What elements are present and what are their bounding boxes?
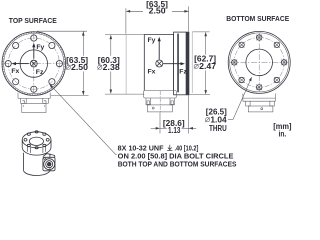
svg-text:Fz: Fz [179,69,187,76]
svg-text:ON 2.00 [50.8] DIA BOLT CIRCLE: ON 2.00 [50.8] DIA BOLT CIRCLE [118,154,234,161]
svg-text:2.38: 2.38 [103,63,121,72]
svg-text:1.04: 1.04 [210,116,227,125]
svg-text:in.: in. [279,129,287,138]
svg-text:8X 10-32 UNF: 8X 10-32 UNF [118,145,165,152]
svg-text:TOP SURFACE: TOP SURFACE [9,16,57,25]
svg-text:Fy: Fy [148,37,156,44]
svg-text:2.50: 2.50 [149,7,167,16]
svg-text:.40 [10.2]: .40 [10.2] [175,145,199,152]
svg-text:BOTH TOP AND BOTTOM SURFACES: BOTH TOP AND BOTTOM SURFACES [118,162,237,169]
svg-text:BOTTOM SURFACE: BOTTOM SURFACE [226,14,289,23]
svg-text:Fx: Fx [11,68,19,75]
svg-text:Fx: Fx [148,69,156,76]
svg-text:2.50: 2.50 [71,63,89,72]
svg-text:1.13: 1.13 [168,126,181,135]
svg-text:2.47: 2.47 [199,62,216,71]
svg-text:Fy: Fy [36,44,44,51]
svg-text:Fz: Fz [36,69,44,76]
svg-text:THRU: THRU [209,124,227,133]
